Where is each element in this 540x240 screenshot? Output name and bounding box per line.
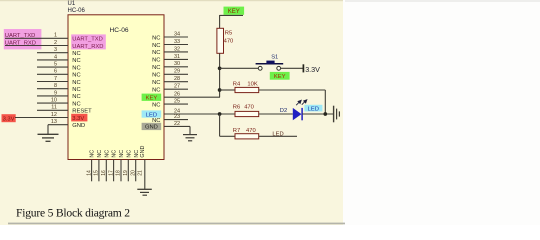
wire from KEY stub down to R5 xyxy=(219,15,221,28)
svg-text:10: 10 xyxy=(51,98,57,104)
svg-text:Figure 5 Block diagram 2: Figure 5 Block diagram 2 xyxy=(16,206,130,219)
svg-text:S1: S1 xyxy=(271,55,278,61)
svg-text:25: 25 xyxy=(174,99,180,105)
svg-text:GND: GND xyxy=(145,125,158,131)
svg-text:29: 29 xyxy=(174,69,180,75)
wire R6 to D2 anode xyxy=(259,113,293,115)
pin 27 NC (right) xyxy=(164,88,188,90)
svg-text:NC: NC xyxy=(72,51,80,57)
pin 23 NC (right) xyxy=(164,119,188,121)
svg-text:NC: NC xyxy=(90,150,96,158)
svg-text:14: 14 xyxy=(86,170,92,176)
svg-text:1: 1 xyxy=(54,33,57,39)
svg-text:UART_RXD: UART_RXD xyxy=(72,44,103,50)
svg-text:NC: NC xyxy=(119,150,125,158)
svg-text:R4: R4 xyxy=(233,82,241,88)
pin 4 NC (left) xyxy=(37,59,68,61)
svg-text:U1: U1 xyxy=(68,1,76,7)
pin 32 NC (right) xyxy=(164,51,188,53)
pin 8 NC (left) xyxy=(37,88,68,90)
pin 24 LED (right) xyxy=(164,113,235,115)
junction D2 cathode / R4 xyxy=(323,112,327,116)
svg-text:11: 11 xyxy=(51,105,57,111)
svg-text:NC: NC xyxy=(152,73,160,79)
svg-text:LED: LED xyxy=(272,131,283,137)
svg-text:NC: NC xyxy=(152,65,160,71)
svg-text:470: 470 xyxy=(224,39,234,45)
svg-text:NC: NC xyxy=(152,80,160,86)
junction at pin 24 LED wire xyxy=(218,112,222,116)
svg-text:3: 3 xyxy=(54,47,57,53)
svg-text:NC: NC xyxy=(72,101,80,107)
ground symbol right of D2 (sideways) xyxy=(333,106,335,123)
pin 33 NC (right) xyxy=(164,44,188,46)
svg-text:NC: NC xyxy=(72,94,80,100)
svg-text:18: 18 xyxy=(116,170,122,176)
svg-text:7: 7 xyxy=(54,76,57,82)
pin 3 NC (left) xyxy=(37,52,68,54)
pin 26 KEY (right) xyxy=(164,96,220,98)
svg-text:470: 470 xyxy=(246,128,256,134)
net label UART_TXD / UART_RXD (pink highlight box) xyxy=(4,29,42,49)
pin 15 NC (bottom) xyxy=(98,160,100,182)
svg-text:19: 19 xyxy=(123,170,129,176)
svg-text:16: 16 xyxy=(101,170,107,176)
pin 10 NC (left) xyxy=(37,102,68,104)
svg-text:4: 4 xyxy=(54,54,57,60)
svg-text:GND: GND xyxy=(72,123,85,129)
svg-text:NC: NC xyxy=(72,80,80,86)
svg-text:GND: GND xyxy=(140,146,146,158)
wire pin24 node down to R7 xyxy=(219,114,221,136)
svg-text:9: 9 xyxy=(54,90,57,96)
ground symbol below bottom GND pin xyxy=(137,188,152,190)
svg-text:NC: NC xyxy=(72,87,80,93)
net label KEY under S1 (green highlight) xyxy=(270,72,290,80)
svg-text:23: 23 xyxy=(174,114,180,120)
svg-text:HC-06: HC-06 xyxy=(68,8,86,14)
wire KEY stub at top xyxy=(220,14,243,16)
top edge shading of cream area xyxy=(0,0,343,1)
svg-text:LED: LED xyxy=(308,106,319,112)
svg-text:KEY: KEY xyxy=(228,9,240,15)
background scanned page (cream area) xyxy=(0,0,343,225)
svg-text:15: 15 xyxy=(94,170,100,176)
svg-text:13: 13 xyxy=(51,119,57,125)
svg-text:26: 26 xyxy=(174,92,180,98)
svg-text:NC: NC xyxy=(126,150,132,158)
svg-text:NC: NC xyxy=(97,150,103,158)
pin 14 NC (bottom) xyxy=(91,160,93,182)
svg-text:3.3V: 3.3V xyxy=(3,117,15,123)
svg-text:470: 470 xyxy=(244,104,254,110)
wire R7 to LED net label xyxy=(259,135,297,137)
wire pin26 node to R4 xyxy=(220,89,235,91)
pin 7 NC (left) xyxy=(37,81,68,83)
wire R4 to LED cathode node xyxy=(259,89,326,91)
svg-text:NC: NC xyxy=(152,58,160,64)
svg-text:3.3V: 3.3V xyxy=(305,65,320,74)
pin 13 GND (left) xyxy=(48,124,68,126)
resistor R5 xyxy=(217,28,224,53)
svg-text:22: 22 xyxy=(174,121,180,127)
svg-text:KEY: KEY xyxy=(274,74,286,80)
svg-text:2: 2 xyxy=(54,40,57,46)
pin 29 NC (right) xyxy=(164,73,188,75)
svg-text:5: 5 xyxy=(54,62,57,68)
background white area xyxy=(343,0,540,225)
ground symbol at pin 22 xyxy=(189,126,191,134)
svg-text:KEY: KEY xyxy=(146,96,158,102)
pin 25 NC (right) xyxy=(164,103,188,105)
pin 30 NC (right) xyxy=(164,66,188,68)
svg-text:R5: R5 xyxy=(225,31,232,37)
power port 3.3V (left, red highlight) xyxy=(2,114,16,122)
resistor R7 470 xyxy=(235,134,259,139)
wire R5 down to pin 26 KEY node xyxy=(219,53,221,97)
svg-text:RESET: RESET xyxy=(72,109,92,115)
svg-text:3.3V: 3.3V xyxy=(72,116,84,122)
power port 3.3V at S1 xyxy=(302,64,304,72)
pin 1 UART_TXD (left) xyxy=(5,37,68,39)
svg-text:10K: 10K xyxy=(247,82,257,88)
resistor R6 470 xyxy=(235,111,259,116)
net label KEY (top, green highlight) xyxy=(224,7,245,15)
svg-text:D2: D2 xyxy=(280,108,287,114)
svg-text:NC: NC xyxy=(152,88,160,94)
svg-text:NC: NC xyxy=(152,102,160,108)
svg-text:30: 30 xyxy=(174,61,180,67)
wire S1 to 3.3V xyxy=(281,67,304,69)
svg-text:HC-06: HC-06 xyxy=(110,27,129,34)
svg-text:NC: NC xyxy=(152,50,160,56)
faint top border line over white area xyxy=(345,0,540,2)
svg-text:R7: R7 xyxy=(233,128,240,134)
pin 18 NC (bottom) xyxy=(120,160,122,182)
pin 21 GND (bottom) xyxy=(144,160,146,190)
wire D2 cathode to ground xyxy=(302,113,333,115)
svg-text:UART_TXD: UART_TXD xyxy=(5,33,36,39)
svg-text:NC: NC xyxy=(72,65,80,71)
ground symbol below pin 13 xyxy=(47,125,49,135)
pin 2 UART_RXD (left) xyxy=(5,45,68,47)
svg-text:NC: NC xyxy=(112,150,118,158)
svg-text:12: 12 xyxy=(51,112,57,118)
wire to switch S1 xyxy=(220,67,259,69)
svg-text:8: 8 xyxy=(54,83,57,89)
resistor R4 10K xyxy=(235,87,259,92)
svg-text:34: 34 xyxy=(174,31,180,37)
switch S1 xyxy=(258,66,262,70)
svg-text:NC: NC xyxy=(72,73,80,79)
pin 28 NC (right) xyxy=(164,81,188,83)
pin 17 NC (bottom) xyxy=(113,160,115,182)
pin 9 NC (left) xyxy=(37,95,68,97)
svg-text:17: 17 xyxy=(108,170,114,176)
pin 19 NC (bottom) xyxy=(127,160,129,182)
IC U1 HC-06 body xyxy=(68,15,164,160)
pin 31 NC (right) xyxy=(164,58,188,60)
svg-text:UART_RXD: UART_RXD xyxy=(5,41,36,47)
svg-text:NC: NC xyxy=(152,43,160,49)
pin 5 NC (left) xyxy=(37,66,68,68)
svg-text:6: 6 xyxy=(54,69,57,75)
svg-text:27: 27 xyxy=(174,84,180,90)
net label LED at D2 (cyan highlight) xyxy=(304,105,322,112)
pin 12 3.3V (left) xyxy=(15,117,68,119)
junction at switch S1 branch xyxy=(218,66,222,70)
svg-text:R6: R6 xyxy=(233,104,240,110)
pin 20 NC (bottom) xyxy=(135,160,137,182)
svg-text:33: 33 xyxy=(174,39,180,45)
bottom scan shadow line xyxy=(8,223,345,225)
svg-text:21: 21 xyxy=(138,170,144,176)
svg-text:NC: NC xyxy=(72,58,80,64)
pin 22 GND (right) xyxy=(164,125,190,127)
pin 11 RESET (left) xyxy=(37,109,68,111)
svg-text:28: 28 xyxy=(174,76,180,82)
junction at R4 branch xyxy=(218,88,222,92)
svg-text:31: 31 xyxy=(174,54,180,60)
svg-text:NC: NC xyxy=(152,35,160,41)
svg-text:20: 20 xyxy=(130,170,136,176)
pin 6 NC (left) xyxy=(37,73,68,75)
pin 34 NC (right) xyxy=(164,36,188,38)
svg-text:NC: NC xyxy=(104,150,110,158)
pin 16 NC (bottom) xyxy=(105,160,107,182)
svg-text:32: 32 xyxy=(174,46,180,52)
